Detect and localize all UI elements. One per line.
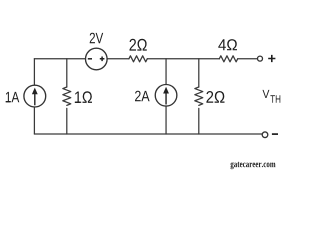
label 4Ω <box>218 39 237 50</box>
wire top rail between R2 and R4 <box>147 58 219 60</box>
current source I1 1A circle <box>24 85 46 107</box>
current source I2 2A circle <box>155 85 177 107</box>
resistor R2 2Ω horizontal body <box>129 56 147 62</box>
voltage source V1 2V circle <box>86 48 108 70</box>
wire top rail middle segment <box>107 58 129 60</box>
label 2V <box>90 33 103 44</box>
wire top rail to + terminal <box>238 58 258 60</box>
resistor R4 4Ω body <box>219 56 237 62</box>
wire left branch vertical <box>33 59 35 134</box>
label 1Ω <box>75 91 92 103</box>
label 2Ω horizontal <box>129 39 146 51</box>
terminal - open circle <box>262 132 268 138</box>
voltage source V1 minus sign <box>88 58 92 60</box>
label 2A <box>135 91 150 102</box>
label 2Ω vertical <box>206 91 224 103</box>
wire bottom rail <box>34 133 262 135</box>
label 1A <box>6 92 20 102</box>
minus sign output <box>272 133 278 135</box>
label 1A foot of digit 1 <box>6 101 11 102</box>
label 1Ω foot of digit 1 <box>75 102 80 103</box>
wire 1Ω branch bottom <box>66 108 68 134</box>
wire 2Ω vertical branch top <box>198 59 200 87</box>
plus sign output <box>268 55 275 62</box>
current source I2 arrow <box>165 92 167 105</box>
resistor R3 2Ω vertical body <box>195 87 203 105</box>
label TH subscript <box>270 95 280 103</box>
label V of VTH <box>262 90 269 98</box>
watermark gatecareer.com <box>231 162 276 169</box>
wire 2Ω vertical branch bottom <box>198 108 200 134</box>
terminal + open circle <box>258 56 263 61</box>
wire 1Ω branch top <box>66 59 68 87</box>
current source I1 arrow <box>34 93 36 106</box>
voltage source V1 plus sign <box>100 57 105 62</box>
resistor R1 1Ω body <box>63 87 71 105</box>
wire 2A branch vertical <box>165 59 167 134</box>
wire top rail left segment <box>34 58 85 60</box>
